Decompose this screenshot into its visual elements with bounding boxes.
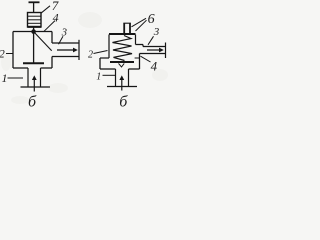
svg-text:1: 1 — [2, 71, 8, 85]
outlet step (right) — [136, 45, 144, 47]
outlet port flange (right) — [165, 43, 167, 59]
coil spring 6 (zigzag) — [113, 36, 133, 61]
svg-text:4: 4 — [151, 58, 158, 73]
adjusting screw T-handle (left valve) — [29, 2, 40, 12]
outlet port flange (left) — [78, 40, 80, 60]
leader line to label 4 (right) — [141, 56, 151, 62]
svg-text:3: 3 — [153, 26, 160, 38]
outlet passage 3 (left): lower wall — [52, 56, 79, 58]
leader line to label 1 (right) — [103, 74, 116, 76]
valve body 2 (left) — [13, 32, 52, 69]
svg-text:1: 1 — [96, 71, 101, 82]
leader line to label 2 (right) — [94, 51, 108, 54]
valve body (right) — [100, 54, 140, 70]
spring 7 (hatched box, left valve) — [28, 13, 42, 28]
svg-text:2: 2 — [88, 50, 93, 61]
paper-noise (scan artifacts) — [1, 12, 168, 104]
leader line to label 3 (right) — [148, 36, 154, 45]
svg-text:б: б — [28, 94, 37, 108]
leader line to label 2 (left) — [6, 53, 13, 55]
inlet channel walls (right) — [116, 69, 129, 86]
leader line to label 4 (left) — [44, 21, 55, 32]
svg-text:3: 3 — [61, 27, 67, 38]
inlet pipe line (right) — [107, 86, 137, 88]
leader line to label 7 — [41, 6, 50, 14]
spring bonnet (right valve) — [109, 34, 136, 58]
poppet cone (right) — [119, 63, 125, 67]
flow arrow out (left) — [57, 48, 78, 53]
leader line to label 1 (left) — [8, 77, 24, 79]
flow arrow out (right) — [147, 48, 164, 53]
spring seat plate (right) — [110, 61, 134, 63]
inlet flow arrow up (right) — [119, 75, 124, 90]
svg-text:2: 2 — [0, 49, 5, 61]
inlet channel walls (left) — [28, 68, 41, 87]
leader line to label 6 (lower, to spring) — [136, 20, 147, 31]
throttling diagonal (left) — [34, 32, 51, 50]
valve stem (left) — [33, 27, 35, 63]
leader line to label 6 (upper, to collar) — [132, 18, 147, 27]
spring guide collar (right valve) — [123, 23, 131, 34]
svg-text:б: б — [119, 94, 128, 108]
outlet passage upper wall (right) — [143, 46, 166, 48]
outlet passage lower wall (right) — [140, 53, 167, 55]
svg-text:4: 4 — [53, 11, 59, 25]
poppet plate (left) — [23, 62, 44, 64]
inlet pipe line (left) — [21, 86, 51, 88]
leader line to label 3 (left) — [59, 36, 64, 44]
inlet flow arrow up (left) — [32, 75, 37, 91]
outlet passage 3 (left): upper wall — [52, 42, 79, 44]
node: stem junction dot — [31, 29, 36, 34]
